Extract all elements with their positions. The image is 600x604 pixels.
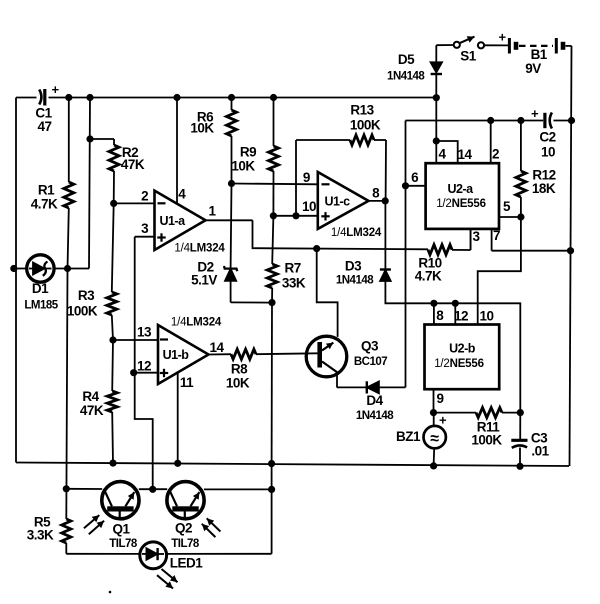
svg-text:9: 9: [303, 170, 310, 185]
svg-text:100K: 100K: [67, 304, 98, 319]
svg-text:LED1: LED1: [170, 555, 204, 570]
svg-text:U2-a: U2-a: [447, 182, 474, 196]
svg-text:.01: .01: [531, 444, 549, 459]
svg-text:TIL78: TIL78: [171, 538, 200, 550]
svg-text:Q1: Q1: [112, 521, 130, 536]
svg-text:13: 13: [137, 325, 152, 340]
svg-text:R1: R1: [38, 183, 55, 198]
svg-text:+: +: [439, 413, 447, 428]
svg-text:3.3K: 3.3K: [27, 528, 54, 543]
svg-text:1N4148: 1N4148: [387, 70, 425, 82]
svg-text:4: 4: [438, 147, 446, 162]
svg-text:10K: 10K: [231, 159, 255, 174]
svg-text:9V: 9V: [525, 61, 541, 76]
svg-text:47K: 47K: [121, 157, 145, 172]
svg-text:2: 2: [492, 147, 499, 162]
svg-text:S1: S1: [460, 49, 477, 64]
svg-text:12: 12: [454, 309, 468, 324]
svg-text:D5: D5: [398, 52, 415, 67]
svg-text:R7: R7: [284, 261, 300, 276]
svg-text:D3: D3: [345, 259, 362, 274]
svg-text:D4: D4: [366, 393, 383, 408]
svg-text:+: +: [51, 82, 59, 97]
svg-text:≈: ≈: [430, 431, 439, 448]
svg-text:4: 4: [178, 187, 186, 202]
svg-text:4.7K: 4.7K: [415, 268, 442, 283]
svg-text:4.7K: 4.7K: [31, 197, 58, 212]
svg-text:1: 1: [208, 204, 216, 219]
svg-text:8: 8: [372, 186, 380, 201]
svg-text:100K: 100K: [471, 433, 502, 448]
svg-text:47: 47: [37, 119, 51, 134]
svg-text:100K: 100K: [350, 118, 381, 133]
svg-text:+: +: [498, 29, 506, 44]
svg-text:10: 10: [302, 199, 316, 214]
svg-text:3: 3: [472, 229, 480, 244]
svg-text:BZ1: BZ1: [396, 429, 421, 444]
svg-text:5.1V: 5.1V: [191, 272, 217, 287]
svg-text:D1: D1: [32, 281, 49, 296]
svg-text:TIL78: TIL78: [109, 538, 138, 550]
svg-text:10: 10: [541, 145, 555, 160]
svg-text:5: 5: [503, 199, 511, 214]
svg-text:R8: R8: [231, 362, 248, 377]
svg-text:Q2: Q2: [175, 521, 192, 536]
svg-text:3: 3: [141, 221, 149, 236]
svg-text:BC107: BC107: [354, 356, 387, 368]
svg-text:1/4LM324: 1/4LM324: [331, 227, 382, 239]
svg-text:1N4148: 1N4148: [336, 275, 374, 287]
svg-text:9: 9: [436, 391, 443, 406]
svg-text:7: 7: [493, 228, 500, 243]
svg-text:U1-b: U1-b: [163, 348, 190, 362]
svg-text:1/2NE556: 1/2NE556: [436, 198, 486, 210]
svg-text:2: 2: [141, 189, 148, 204]
svg-text:12: 12: [137, 359, 151, 374]
svg-text:18K: 18K: [532, 181, 556, 196]
svg-text:Q3: Q3: [361, 339, 379, 354]
svg-text:R4: R4: [82, 389, 99, 404]
svg-text:11: 11: [180, 375, 194, 390]
svg-text:14: 14: [209, 340, 224, 355]
svg-text:6: 6: [411, 170, 419, 185]
svg-text:10K: 10K: [226, 376, 250, 391]
svg-text:47K: 47K: [80, 403, 104, 418]
svg-text:1/2NE556: 1/2NE556: [434, 358, 484, 370]
svg-text:R3: R3: [78, 288, 95, 303]
svg-text:10: 10: [479, 309, 493, 324]
svg-text:8: 8: [436, 308, 444, 323]
svg-text:10K: 10K: [190, 121, 214, 136]
svg-text:1/4LM324: 1/4LM324: [174, 243, 225, 255]
svg-text:U1-a: U1-a: [159, 214, 186, 228]
svg-text:14: 14: [457, 147, 472, 162]
svg-text:1/4LM324: 1/4LM324: [171, 317, 222, 329]
svg-text:R9: R9: [240, 145, 256, 160]
svg-text:U1-c: U1-c: [324, 194, 350, 208]
svg-text:R13: R13: [350, 103, 374, 118]
svg-text:+: +: [531, 106, 539, 121]
svg-text:U2-b: U2-b: [449, 342, 476, 356]
svg-text:C2: C2: [539, 130, 555, 145]
svg-text:1N4148: 1N4148: [356, 410, 394, 422]
svg-text:LM185: LM185: [24, 300, 58, 312]
svg-text:33K: 33K: [282, 276, 306, 291]
